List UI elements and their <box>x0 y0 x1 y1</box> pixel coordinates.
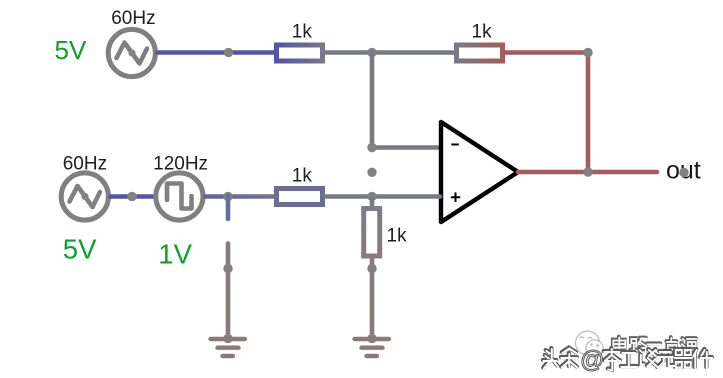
post on switch ground wire <box>223 264 232 273</box>
voltage source V2 60Hz sine (bottom left) <box>61 173 108 220</box>
voltage source V1 60Hz sine (top left) <box>108 29 155 76</box>
wire V3 to R3 (blue-gray) <box>205 194 274 199</box>
floating post (op-amp mid terminal) <box>367 168 376 177</box>
watermark text line1: 电路一点通 <box>613 337 697 356</box>
svg-text:60Hz: 60Hz <box>63 154 107 175</box>
resistor R2 1k (feedback, gray-red) <box>457 45 503 61</box>
wire junction C to R4 top (stub) <box>370 197 375 209</box>
junction node A (top, x=372) <box>367 48 376 57</box>
post on R4 ground wire <box>367 264 376 273</box>
wire V1 to R1 (blue, top) <box>158 50 275 55</box>
wire node A down to inverting input corner <box>372 53 440 148</box>
junction node C (non-inverting input) <box>367 192 376 201</box>
svg-text:1k: 1k <box>387 226 408 247</box>
svg-text:1V: 1V <box>158 239 192 270</box>
junction post on top wire <box>224 48 233 57</box>
wire switch bottom terminal to ground (brown) <box>226 244 231 339</box>
wire V2 to V3 (blue) <box>111 194 154 199</box>
junction post between V2 and V3 <box>127 192 136 201</box>
resistor R4 1k (vertical, to ground) <box>364 209 380 257</box>
svg-text:5V: 5V <box>55 35 87 65</box>
junction post at inverting corner <box>367 143 376 152</box>
svg-text:60Hz: 60Hz <box>111 8 155 29</box>
junction output node <box>583 167 592 176</box>
junction post feedback top corner <box>583 48 592 57</box>
junction node B (switch tap) <box>223 192 232 201</box>
watermark text line2: 头条@李工谈元器件 <box>543 348 713 371</box>
watermark logo bubbles <box>576 331 604 357</box>
switch S1 open (stub + gap) <box>226 197 231 220</box>
wire op-amp output to out terminal (red) <box>518 170 657 175</box>
wire R2 to feedback corner (red) <box>505 53 588 173</box>
resistor R1 1k (top left, blue-gray) <box>277 45 323 61</box>
svg-text:1k: 1k <box>472 22 493 43</box>
svg-text:1k: 1k <box>292 22 313 43</box>
svg-text:@: @ <box>580 347 604 374</box>
wire R4 to ground (brown) <box>370 259 375 339</box>
ground G2 post <box>367 334 376 343</box>
svg-text:1k: 1k <box>292 165 313 186</box>
voltage source V3 120Hz square (bottom) <box>156 173 203 220</box>
wire R1 to R2 (gray, top) <box>325 50 454 55</box>
svg-text:5V: 5V <box>63 234 97 265</box>
ground G1 post <box>223 334 232 343</box>
ground G1 <box>211 339 246 356</box>
ground G2 <box>355 339 390 356</box>
op-amp U1 <box>441 122 518 222</box>
resistor R3 1k (bottom, blue-gray) <box>277 189 323 205</box>
svg-text:120Hz: 120Hz <box>153 154 208 175</box>
out terminal post <box>679 168 688 177</box>
wire R3 to op-amp + input (gray) <box>326 194 440 199</box>
